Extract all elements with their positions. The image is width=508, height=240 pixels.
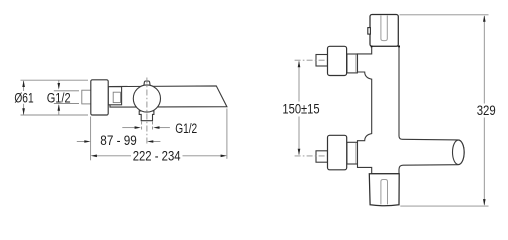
svg-text:G1/2: G1/2 bbox=[47, 90, 71, 105]
svg-text:Ø61: Ø61 bbox=[14, 90, 33, 105]
svg-text:329: 329 bbox=[477, 103, 496, 118]
svg-text:150±15: 150±15 bbox=[282, 102, 319, 117]
svg-text:87 - 99: 87 - 99 bbox=[100, 133, 137, 148]
svg-text:G1/2: G1/2 bbox=[175, 121, 197, 136]
svg-text:222 - 234: 222 - 234 bbox=[133, 148, 181, 163]
